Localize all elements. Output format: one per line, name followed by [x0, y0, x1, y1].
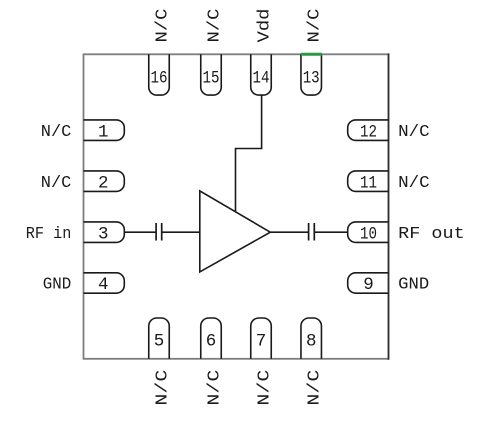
svg-text:N/C: N/C: [205, 9, 224, 43]
svg-text:5: 5: [154, 332, 165, 352]
svg-text:3: 3: [98, 224, 109, 244]
svg-text:GND: GND: [398, 276, 429, 295]
svg-text:N/C: N/C: [153, 9, 172, 43]
svg-text:Vdd: Vdd: [255, 9, 274, 43]
svg-text:2: 2: [98, 173, 109, 193]
svg-text:N/C: N/C: [306, 9, 325, 43]
svg-text:GND: GND: [43, 276, 72, 295]
svg-text:N/C: N/C: [398, 123, 430, 142]
svg-text:8: 8: [306, 332, 317, 352]
svg-text:11: 11: [360, 173, 377, 193]
svg-text:N/C: N/C: [255, 370, 274, 406]
svg-text:4: 4: [98, 275, 109, 295]
svg-text:RF in: RF in: [26, 225, 72, 244]
svg-text:7: 7: [256, 332, 267, 352]
svg-text:10: 10: [360, 224, 377, 244]
svg-text:14: 14: [253, 68, 270, 88]
svg-text:N/C: N/C: [153, 370, 172, 406]
svg-text:12: 12: [360, 122, 377, 142]
svg-text:N/C: N/C: [41, 174, 72, 193]
svg-text:9: 9: [363, 275, 374, 295]
svg-text:N/C: N/C: [398, 174, 430, 193]
svg-text:N/C: N/C: [306, 370, 325, 406]
svg-text:RF out: RF out: [398, 225, 465, 244]
svg-text:1: 1: [98, 122, 109, 142]
svg-text:13: 13: [303, 68, 320, 88]
svg-text:15: 15: [203, 68, 220, 88]
svg-text:N/C: N/C: [41, 123, 72, 142]
svg-text:16: 16: [151, 68, 168, 88]
svg-text:6: 6: [206, 332, 217, 352]
svg-text:N/C: N/C: [205, 370, 224, 406]
